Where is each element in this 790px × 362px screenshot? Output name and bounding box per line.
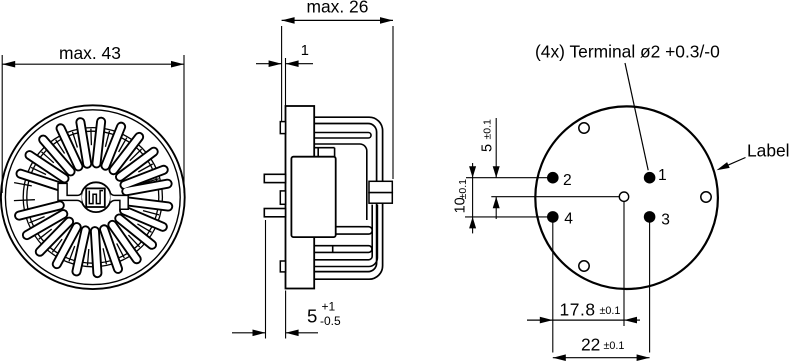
svg-text:max. 43: max. 43 bbox=[59, 43, 121, 63]
svg-text:±0.1: ±0.1 bbox=[457, 179, 469, 200]
svg-text:17.8: 17.8 bbox=[560, 300, 596, 320]
svg-text:±0.1: ±0.1 bbox=[600, 305, 621, 317]
svg-text:3: 3 bbox=[661, 212, 670, 229]
svg-text:2: 2 bbox=[563, 172, 572, 189]
svg-text:±0.1: ±0.1 bbox=[481, 119, 493, 140]
svg-text:-0.5: -0.5 bbox=[320, 314, 341, 328]
svg-text:Label: Label bbox=[747, 141, 790, 161]
svg-text:(4x) Terminal ø2 +0.3/-0: (4x) Terminal ø2 +0.3/-0 bbox=[535, 42, 720, 62]
svg-text:5: 5 bbox=[307, 305, 317, 326]
svg-text:±0.1: ±0.1 bbox=[604, 340, 625, 352]
svg-text:max. 26: max. 26 bbox=[307, 0, 369, 16]
svg-text:22: 22 bbox=[581, 335, 600, 355]
svg-text:+1: +1 bbox=[322, 300, 336, 314]
svg-text:4: 4 bbox=[564, 210, 573, 227]
svg-text:1: 1 bbox=[301, 43, 309, 59]
svg-text:5: 5 bbox=[479, 144, 495, 152]
svg-text:1: 1 bbox=[658, 167, 667, 184]
